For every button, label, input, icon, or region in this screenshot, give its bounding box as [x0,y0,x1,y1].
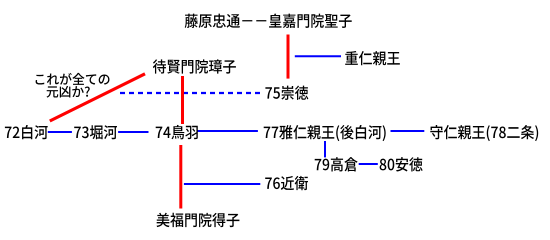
node 76近衛 [265,176,308,190]
wire: blue line 72白河 - 73堀河 [48,131,72,133]
node 80安徳 [380,157,423,171]
node 待賢門院璋子 [153,59,236,73]
wire: blue line 皇嘉門院聖子couple to 重仁親王 [295,55,341,57]
wire: blue line 74鳥羽 - 77雅仁親王 [197,130,258,132]
annotation これが全ての (line 1) [36,73,110,85]
wire: red descent line 74鳥羽 to 美福門院得子 [179,145,182,209]
node 72白河 [5,125,48,139]
node 79高倉 [315,157,358,171]
wire: blue dashed link 待賢門院璋子 ~ 75崇徳 [120,92,262,94]
wire: blue vertical 後白河 to 79高倉 [324,141,326,157]
node 77雅仁親王(後白河) [264,125,386,141]
wire: red descent line 藤原忠通couple to 75崇徳 [287,35,290,79]
node 74鳥羽 [156,125,198,139]
wire: red annotation stroke これが全ての元凶か pointing 待賢門院璋子 [50,74,145,121]
node 重仁親王 [345,51,400,65]
node 75崇徳 [265,86,308,100]
node 守仁親王(78二条) [430,125,538,141]
annotation 元凶か? (line 2) [47,86,90,98]
wire: blue line 73堀河 - 74鳥羽 [118,131,148,133]
wire: blue line 79高倉 - 80安徳 [359,163,378,165]
wire: blue line to 76近衛 [184,183,260,185]
node 美福門院得子 [156,213,239,227]
wire: red descent line 待賢門院璋子 to 74鳥羽 [181,76,184,124]
node 藤原忠通――皇嘉門院聖子 [185,14,352,28]
node 73堀河 [74,125,117,139]
wire: blue line 77雅仁親王(後白河) - 守仁親王(78二条) [391,130,425,132]
